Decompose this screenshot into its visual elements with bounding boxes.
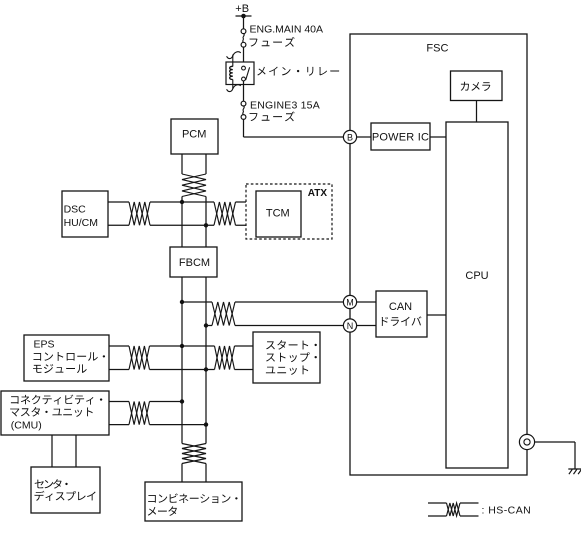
chassis ground symbol bbox=[568, 469, 581, 474]
svg-text:DSC: DSC bbox=[64, 203, 87, 215]
svg-text:FBCM: FBCM bbox=[179, 257, 210, 269]
wire N row to terminal bbox=[235, 325, 343, 327]
start-stop unit box bbox=[253, 332, 320, 383]
wire camera to CPU bbox=[476, 101, 478, 123]
label ストップ・ bbox=[266, 352, 317, 362]
center display box bbox=[31, 467, 100, 513]
label ドライバ bbox=[382, 316, 422, 326]
wire CMU row top to bus bbox=[150, 401, 183, 403]
label スタート・ bbox=[266, 340, 317, 350]
svg-text:TCM: TCM bbox=[266, 208, 290, 220]
label センタ・ bbox=[35, 479, 68, 489]
CMU box bbox=[1, 391, 109, 435]
svg-text:+B: +B bbox=[235, 3, 249, 15]
FBCM box bbox=[170, 247, 217, 277]
wire DSC bottom lead bbox=[108, 224, 129, 226]
svg-text:ENGINE3 15A: ENGINE3 15A bbox=[250, 100, 320, 112]
wire row1 bottom into TCM bbox=[236, 224, 257, 226]
svg-text:CAN: CAN bbox=[389, 301, 412, 313]
legend twisted-pair symbol bbox=[428, 503, 479, 516]
combination meter box bbox=[145, 482, 242, 521]
wire EPS bottom lead bbox=[109, 369, 129, 371]
wire EPS row top mid bbox=[150, 345, 215, 347]
wire CMU row bottom to bus bbox=[150, 424, 207, 426]
PCM box bbox=[171, 119, 218, 154]
wire bus right to meter bbox=[205, 464, 207, 483]
FSC module box bbox=[350, 34, 527, 475]
relay coil wire + pigtail top bbox=[227, 52, 241, 67]
junction N row / bus right bbox=[204, 323, 208, 327]
wire DSC top lead bbox=[108, 201, 129, 203]
svg-text:HU/CM: HU/CM bbox=[64, 217, 98, 229]
label ディスプレイ bbox=[35, 491, 96, 501]
terminal M bbox=[343, 295, 356, 308]
label relay メイン・リレー bbox=[257, 67, 339, 76]
wire POWER IC to CPU bbox=[430, 136, 446, 138]
junction +B bbox=[241, 14, 246, 19]
wire N to CAN driver bbox=[357, 325, 376, 327]
twisted pair TCM bbox=[214, 202, 236, 225]
wire N row from bus bbox=[206, 325, 212, 327]
wire relay to fuse2 bbox=[243, 81, 245, 101]
svg-text:: HS-CAN: : HS-CAN bbox=[482, 504, 532, 516]
wire fuse1 to relay bbox=[243, 47, 245, 66]
wire EPS row bottom mid bbox=[150, 369, 215, 371]
wire +B tick bbox=[236, 15, 252, 17]
junction row1 top / bus left bbox=[180, 200, 184, 204]
wire bus right PCM seg bbox=[205, 154, 207, 174]
ATX dashed box bbox=[246, 184, 332, 239]
relay coil wire + pigtail bottom bbox=[227, 80, 241, 92]
wire row1 bottom to TCM twist bbox=[150, 224, 214, 226]
wire row top into start-stop bbox=[235, 345, 254, 347]
EPS control module box bbox=[24, 335, 109, 381]
svg-text:ENG.MAIN 40A: ENG.MAIN 40A bbox=[250, 24, 324, 36]
label メータ bbox=[148, 506, 177, 516]
junction EPS row / bus right bbox=[204, 367, 208, 371]
twisted pair M/N bbox=[212, 302, 235, 326]
twisted pair PCM-bus bbox=[182, 174, 206, 197]
junction EPS row / bus left bbox=[180, 344, 184, 348]
junction row1 bottom / bus right bbox=[204, 223, 208, 227]
wire bus left PCM seg bbox=[181, 154, 183, 174]
wire feed to B terminal bbox=[244, 136, 344, 138]
twisted pair DSC bbox=[129, 202, 150, 225]
CAN driver box bbox=[376, 291, 427, 337]
svg-text:EPS: EPS bbox=[34, 338, 55, 350]
wire M to CAN driver bbox=[357, 301, 376, 303]
camera box カメラ bbox=[451, 71, 503, 101]
junction M row / bus left bbox=[180, 300, 184, 304]
svg-text:FSC: FSC bbox=[426, 43, 448, 55]
wire M row to terminal bbox=[235, 301, 343, 303]
terminal B bbox=[343, 130, 356, 143]
TCM box bbox=[256, 191, 301, 237]
svg-text:(CMU): (CMU) bbox=[11, 420, 42, 432]
svg-text:ATX: ATX bbox=[308, 188, 328, 199]
svg-text:POWER IC: POWER IC bbox=[372, 131, 429, 143]
wire row1 top to TCM twist bbox=[150, 201, 214, 203]
label fuse1 bbox=[250, 37, 295, 47]
wire CMU top lead bbox=[109, 401, 129, 403]
wire ground drop bbox=[574, 442, 576, 469]
svg-text:CPU: CPU bbox=[465, 270, 488, 282]
wire CMU to display right bbox=[75, 435, 77, 467]
wire +B down to fuse1 bbox=[243, 16, 245, 29]
label コンビネーション・ bbox=[148, 493, 237, 503]
wire bus right mid seg bbox=[205, 197, 207, 248]
wire bus left mid seg bbox=[181, 197, 183, 248]
terminal O inner bbox=[524, 439, 530, 445]
svg-text:B: B bbox=[347, 132, 353, 142]
wire CAN driver to CPU bbox=[427, 314, 446, 316]
twisted pair CMU bbox=[129, 402, 150, 425]
label カメラ bbox=[461, 82, 491, 91]
wire fuse2 down bbox=[243, 119, 245, 137]
terminal N bbox=[343, 319, 356, 332]
junction CMU row / bus left bbox=[180, 399, 184, 403]
label コントロール・ bbox=[34, 352, 106, 361]
label マスタ・ユニット bbox=[10, 407, 92, 417]
fuse ENG.MAIN 40A bbox=[241, 29, 246, 47]
wire row bottom into start-stop bbox=[235, 369, 254, 371]
relay switch contacts bbox=[242, 66, 250, 81]
CPU box bbox=[446, 122, 508, 468]
wire CMU to display left bbox=[51, 435, 53, 467]
wire EPS top lead bbox=[109, 345, 129, 347]
fuse ENGINE3 15A bbox=[241, 101, 246, 119]
relay box メイン・リレー bbox=[226, 62, 254, 85]
label fuse2 bbox=[250, 112, 295, 122]
svg-text:N: N bbox=[347, 321, 354, 331]
svg-text:M: M bbox=[346, 297, 354, 307]
label ユニット bbox=[266, 366, 308, 375]
wire M row from bus bbox=[182, 301, 212, 303]
wire B to POWER IC bbox=[357, 136, 372, 138]
wire O to ground corner bbox=[535, 441, 575, 443]
label モジュール bbox=[33, 364, 87, 373]
twisted pair bus-meter bbox=[182, 444, 206, 464]
relay coil bbox=[230, 66, 233, 79]
wire row1 top into TCM bbox=[236, 201, 257, 203]
svg-text:PCM: PCM bbox=[182, 128, 206, 140]
wire bus left lower seg bbox=[181, 277, 183, 444]
twisted pair EPS bbox=[129, 346, 150, 370]
legend twist braid bbox=[447, 503, 461, 516]
label コネクティビティ・ bbox=[11, 395, 102, 405]
twisted pair start-stop bbox=[215, 346, 235, 370]
wire bus left to meter bbox=[181, 464, 183, 483]
wire CMU bottom lead bbox=[109, 424, 129, 426]
DSC HU/CM box bbox=[62, 191, 108, 237]
power IC box bbox=[371, 123, 430, 150]
wire bus right lower seg bbox=[205, 277, 207, 444]
terminal O outer bbox=[519, 434, 534, 449]
junction CMU row / bus right bbox=[204, 422, 208, 426]
